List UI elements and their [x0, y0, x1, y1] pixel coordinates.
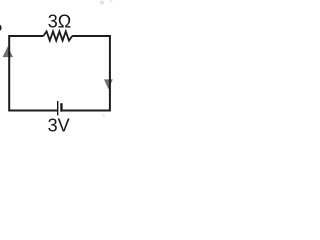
svg-text:3V: 3V — [48, 116, 70, 136]
svg-text:3Ω: 3Ω — [48, 11, 71, 31]
